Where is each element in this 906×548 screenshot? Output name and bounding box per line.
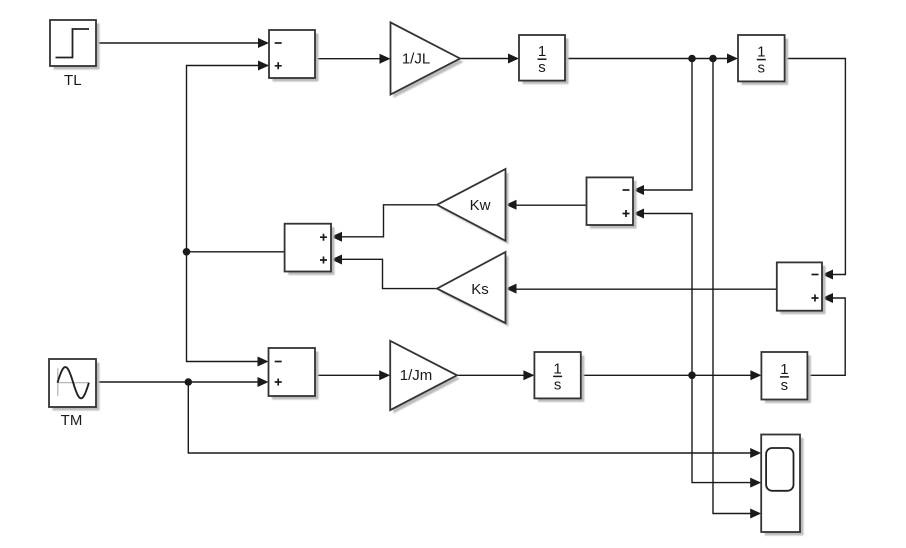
arrowhead into S2 plus2 [331, 255, 342, 265]
node B dot [688, 55, 696, 63]
step source TL [50, 20, 100, 89]
wire Kw to S2 plus1 [341, 205, 437, 237]
wire node B to S3 minus [643, 59, 692, 191]
scope [761, 435, 803, 536]
arrowhead into integrator3 [523, 370, 534, 380]
wire 1/JL to integrator1 [460, 58, 510, 60]
gain Ks [437, 252, 509, 327]
arrowhead into 1/Jm [379, 370, 390, 380]
svg-text:1/Jm: 1/Jm [400, 367, 433, 384]
integrator3 (1/s bottom row) [534, 352, 584, 402]
gain 1/JL [391, 22, 464, 98]
wire TL to S1 minus [96, 42, 260, 44]
wire integrator4 to S4 plus [807, 298, 845, 375]
integrator4 (1/s bottom right) [761, 352, 811, 403]
svg-text:Ks: Ks [471, 281, 489, 298]
svg-text:1: 1 [757, 44, 765, 61]
wire TM to S5 plus [96, 381, 259, 383]
svg-text:TM: TM [61, 412, 83, 429]
sum S1 [269, 30, 319, 82]
svg-text:s: s [781, 377, 789, 394]
integrator1 (1/s top row) [519, 35, 569, 84]
arrowhead into S1 minus [258, 38, 269, 48]
arrowhead into Ks [506, 284, 517, 294]
svg-text:Kw: Kw [470, 197, 491, 214]
arrowhead into S5 plus [258, 377, 269, 387]
node C dot [709, 55, 717, 63]
arrowhead into 1/JL [380, 54, 391, 64]
wire node E to scope input1 [188, 382, 752, 453]
svg-text:1/JL: 1/JL [402, 50, 430, 67]
arrowhead into Kw [506, 200, 517, 210]
arrowhead into S1 plus [258, 61, 269, 71]
svg-text:1: 1 [553, 360, 561, 377]
node A junction dot [183, 248, 191, 256]
wire trunk x=186.5 (S2 output to S1 plus and S5 minus) [187, 66, 285, 362]
wire node C to scope input3 [713, 59, 752, 514]
arrowhead into scope input2 [750, 478, 761, 488]
arrowhead into scope input1 [750, 448, 761, 458]
arrowhead into integrator1 [508, 54, 519, 64]
sine source TM [49, 359, 100, 429]
node E dot [185, 378, 193, 386]
wire integrator1 to integrator2 [565, 58, 729, 60]
arrowhead into S3 plus [633, 209, 644, 219]
sum S5 [269, 348, 319, 400]
wire Ks to S2 plus2 [341, 259, 437, 288]
arrowhead into S2 plus1 [331, 232, 342, 242]
wire integrator3 to integrator4 [581, 374, 752, 376]
svg-text:s: s [758, 60, 766, 77]
gain 1/Jm [390, 341, 460, 414]
wire S3 output to Kw [516, 204, 587, 206]
gain Kw [437, 169, 509, 244]
wire S4 output to Ks [516, 288, 777, 290]
arrowhead into integrator2 [727, 54, 738, 64]
svg-text:1: 1 [780, 361, 788, 378]
integrator2 (1/s top right) [738, 35, 788, 85]
sum S4 [777, 262, 826, 314]
arrowhead into S3 minus [633, 185, 644, 195]
svg-text:TL: TL [64, 72, 82, 89]
svg-text:s: s [554, 376, 562, 393]
arrowhead into integrator4 [750, 370, 761, 380]
svg-text:1: 1 [538, 43, 546, 60]
node D dot [688, 372, 696, 380]
svg-text:s: s [538, 59, 546, 76]
arrowhead into scope input3 [750, 509, 761, 519]
wire S5 to 1/Jm [315, 374, 381, 376]
arrowhead into S4 minus [822, 270, 833, 280]
wire S3 plus trunk x=692 to scope input2 [643, 214, 752, 483]
sum S3 [587, 177, 637, 228]
sum S2 [285, 224, 335, 275]
arrowhead into S4 plus [822, 293, 833, 303]
arrowhead into S5 minus [258, 357, 269, 367]
wire integrator2 to S4 minus [785, 59, 846, 275]
wire 1/Jm to integrator3 [457, 374, 525, 376]
wire S1 to 1/JL [315, 58, 381, 60]
